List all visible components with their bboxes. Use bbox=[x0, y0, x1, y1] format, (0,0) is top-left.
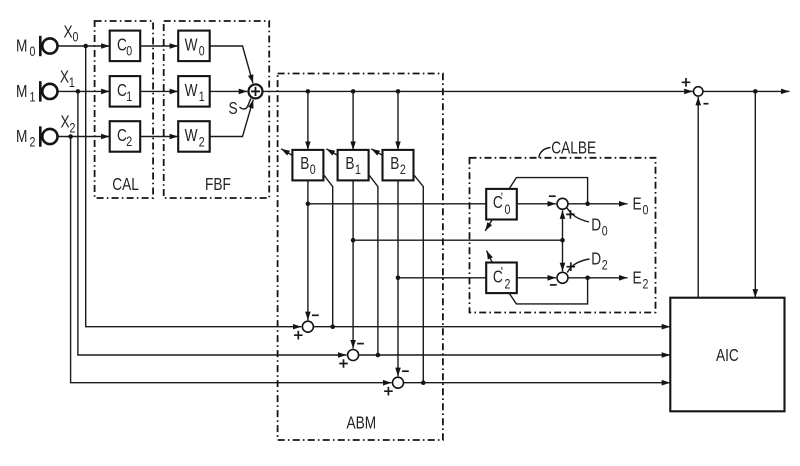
node summer2 control junction bbox=[376, 353, 381, 358]
wire D2 output to E2 bbox=[568, 277, 628, 279]
svg-text:B: B bbox=[345, 154, 354, 173]
wire summer3 output to AIC bbox=[404, 382, 671, 384]
wire AIC summer output bbox=[703, 90, 790, 92]
summer 1 bbox=[302, 321, 313, 332]
node D line junction bbox=[560, 238, 565, 243]
node X0 junction bbox=[83, 44, 88, 49]
block B0 bbox=[292, 150, 323, 181]
svg-text:X: X bbox=[61, 113, 70, 132]
label D0 with leader bbox=[567, 208, 608, 239]
svg-text:D: D bbox=[591, 250, 601, 269]
block C'0 bbox=[486, 189, 517, 220]
svg-text:M: M bbox=[16, 82, 27, 101]
svg-text:C: C bbox=[117, 126, 127, 145]
wire summer1 output to AIC bbox=[313, 326, 670, 328]
node B2 output tap to C'2 bbox=[396, 276, 401, 281]
wire C'2 feedback from E2 node bbox=[509, 278, 587, 304]
svg-text:CAL: CAL bbox=[112, 175, 139, 194]
wire B1 output down to summer 2 bbox=[352, 180, 354, 348]
svg-text:2: 2 bbox=[400, 162, 406, 178]
wire C1 to W1 bbox=[140, 90, 178, 92]
block B2 bbox=[383, 150, 414, 181]
block C'2 bbox=[486, 263, 517, 294]
svg-text:X: X bbox=[60, 68, 69, 87]
svg-text:2: 2 bbox=[70, 120, 76, 136]
svg-text:M: M bbox=[16, 127, 27, 146]
svg-text:0: 0 bbox=[30, 44, 36, 60]
sign minus summer2 bbox=[357, 343, 364, 345]
block B1 bbox=[338, 150, 369, 181]
block W2 bbox=[178, 121, 210, 152]
svg-text:1: 1 bbox=[69, 75, 75, 91]
block W1 bbox=[178, 76, 210, 107]
svg-text:0: 0 bbox=[602, 223, 608, 239]
wire C'0 feedback from E0 node bbox=[509, 178, 587, 204]
svg-text:2: 2 bbox=[505, 276, 511, 292]
wire B1 tap to D vertical bbox=[353, 239, 562, 241]
label M1 bbox=[16, 82, 35, 105]
sign minus summer3 bbox=[402, 370, 409, 372]
block C2 bbox=[110, 121, 141, 152]
wire B2 tap to C'2 bbox=[398, 277, 486, 279]
svg-text:1: 1 bbox=[355, 162, 361, 178]
wire C'2 output to summer D2 bbox=[517, 277, 556, 279]
svg-text:B: B bbox=[300, 154, 309, 173]
wire X2 down to summer 3 bbox=[71, 137, 392, 383]
svg-text:0: 0 bbox=[199, 43, 205, 59]
label CALBE with leader bbox=[539, 139, 596, 158]
summer D0 bbox=[557, 198, 568, 209]
svg-text:W: W bbox=[185, 126, 199, 145]
svg-text:AIC: AIC bbox=[716, 346, 739, 365]
wire C2 to W2 bbox=[140, 136, 178, 138]
label X2 bbox=[61, 113, 76, 136]
node B1 output tap to D line bbox=[351, 238, 356, 243]
wire AIC feedback up to summer bbox=[697, 97, 699, 298]
wire tap to B0 bbox=[307, 91, 309, 149]
wire W2 to summer S bbox=[210, 100, 254, 137]
sign minus AIC summer bbox=[704, 103, 709, 105]
wire M1 to C1 bbox=[59, 90, 110, 92]
wire tap to B1 bbox=[352, 91, 354, 149]
resistor-block C0 bbox=[110, 31, 141, 61]
label E0 bbox=[633, 195, 649, 218]
svg-text:E: E bbox=[633, 269, 642, 288]
svg-text:2: 2 bbox=[602, 257, 608, 273]
summer at AIC input bbox=[694, 87, 703, 96]
svg-text:2: 2 bbox=[30, 134, 36, 150]
svg-text:': ' bbox=[501, 190, 503, 206]
ABM dash-dot box bbox=[278, 74, 443, 441]
svg-text:1: 1 bbox=[30, 89, 36, 105]
svg-text:0: 0 bbox=[310, 162, 316, 178]
adapt arrow B1 bbox=[326, 149, 337, 156]
wire B2 control diagonal from summer3 output bbox=[414, 174, 424, 382]
svg-text:0: 0 bbox=[643, 202, 649, 218]
wire main beam line S to AIC summer bbox=[263, 90, 693, 92]
block W0 bbox=[178, 31, 210, 61]
wire output down to AIC bbox=[754, 91, 756, 297]
svg-text:W: W bbox=[185, 81, 199, 100]
wire D line vertical down into D2 bbox=[562, 240, 564, 271]
adapt arrow C'2 bbox=[487, 251, 493, 263]
sign plus summer3 bbox=[384, 387, 393, 396]
svg-text:': ' bbox=[501, 264, 503, 280]
svg-text:M: M bbox=[16, 37, 27, 56]
wire D line vertical up into D0 bbox=[562, 210, 564, 240]
svg-text:W: W bbox=[185, 36, 199, 55]
wire W1 to summer S bbox=[210, 90, 248, 92]
node summer1 control junction bbox=[330, 324, 335, 329]
node X1 junction bbox=[76, 89, 81, 94]
sign minus D0 bbox=[549, 195, 556, 197]
wire C0 to W0 bbox=[140, 45, 178, 47]
node B0 output tap to C'0 bbox=[306, 202, 311, 207]
wire M2 to C2 bbox=[59, 136, 110, 138]
node X2 junction bbox=[68, 134, 73, 139]
sign plus D2 bbox=[567, 262, 576, 271]
block AIC bbox=[670, 298, 784, 412]
node junction B0 tap bbox=[306, 89, 311, 94]
microphone M0 bbox=[40, 36, 57, 56]
adapt arrow B0 bbox=[281, 149, 292, 156]
label X0 bbox=[64, 23, 79, 45]
CAL dash-dot box bbox=[95, 21, 154, 198]
svg-text:C: C bbox=[117, 36, 127, 55]
wire B0 output down to summer 1 bbox=[307, 180, 309, 320]
svg-text:ABM: ABM bbox=[347, 414, 377, 433]
label S with leader bbox=[229, 99, 252, 119]
svg-text:0: 0 bbox=[73, 29, 79, 45]
svg-text:0: 0 bbox=[505, 202, 511, 218]
summer 2 bbox=[348, 350, 359, 361]
svg-text:2: 2 bbox=[643, 276, 649, 292]
node output junction bbox=[753, 89, 758, 94]
svg-text:D: D bbox=[591, 216, 601, 235]
sign plus AIC summer bbox=[682, 78, 691, 87]
summer 3 bbox=[393, 377, 404, 388]
summer D2 bbox=[557, 272, 568, 283]
wire B1 control diagonal from summer2 output bbox=[369, 174, 378, 355]
svg-text:0: 0 bbox=[126, 43, 132, 59]
wire W0 to summer S bbox=[210, 46, 253, 83]
svg-text:FBF: FBF bbox=[205, 175, 231, 194]
svg-text:CALBE: CALBE bbox=[551, 139, 596, 158]
block C1 bbox=[110, 76, 141, 107]
microphone M1 bbox=[40, 81, 57, 101]
svg-text:2: 2 bbox=[199, 134, 205, 150]
wire D0 output to E0 bbox=[568, 203, 628, 205]
wire C'0 output to summer D0 bbox=[517, 203, 556, 205]
sign plus D0 bbox=[566, 210, 575, 219]
wire summer2 output to AIC bbox=[359, 354, 671, 356]
summer S bbox=[249, 84, 263, 98]
node E2 junction bbox=[585, 276, 590, 281]
sign plus summer2 bbox=[339, 359, 348, 368]
wire X1 down to summer 2 bbox=[78, 91, 347, 355]
node E0 junction bbox=[585, 202, 590, 207]
sign plus summer1 bbox=[294, 331, 303, 340]
node junction B1 tap bbox=[351, 89, 356, 94]
wire B2 output down to summer 3 bbox=[397, 180, 399, 376]
svg-text:E: E bbox=[633, 195, 642, 214]
wire B0 tap to C'0 bbox=[308, 203, 486, 205]
wire M0 to C0 bbox=[59, 45, 110, 47]
CALBE dash-dot box bbox=[470, 158, 656, 313]
wire X0 down to summer 1 bbox=[86, 46, 302, 327]
svg-text:1: 1 bbox=[126, 89, 132, 105]
sign minus summer1 bbox=[312, 314, 319, 316]
svg-text:B: B bbox=[390, 154, 399, 173]
svg-text:S: S bbox=[229, 99, 238, 118]
label M0 bbox=[16, 37, 35, 60]
adapt arrow C'0 bbox=[485, 220, 492, 231]
label M2 bbox=[16, 127, 35, 150]
label E2 bbox=[633, 269, 649, 292]
label D2 with leader bbox=[567, 250, 607, 273]
svg-text:X: X bbox=[64, 23, 73, 42]
node junction B2 tap bbox=[396, 89, 401, 94]
node summer3 control junction bbox=[421, 380, 426, 385]
adapt arrow B2 bbox=[371, 149, 382, 156]
FBF dash-dot box bbox=[164, 21, 270, 198]
wire B0 control diagonal from summer1 output bbox=[323, 174, 332, 326]
svg-text:1: 1 bbox=[199, 89, 205, 105]
svg-text:2: 2 bbox=[126, 134, 132, 150]
label X1 bbox=[60, 68, 75, 91]
svg-text:C: C bbox=[117, 81, 127, 100]
sign minus D2 bbox=[550, 284, 557, 286]
wire tap to B2 bbox=[397, 91, 399, 149]
microphone M2 bbox=[40, 126, 57, 146]
